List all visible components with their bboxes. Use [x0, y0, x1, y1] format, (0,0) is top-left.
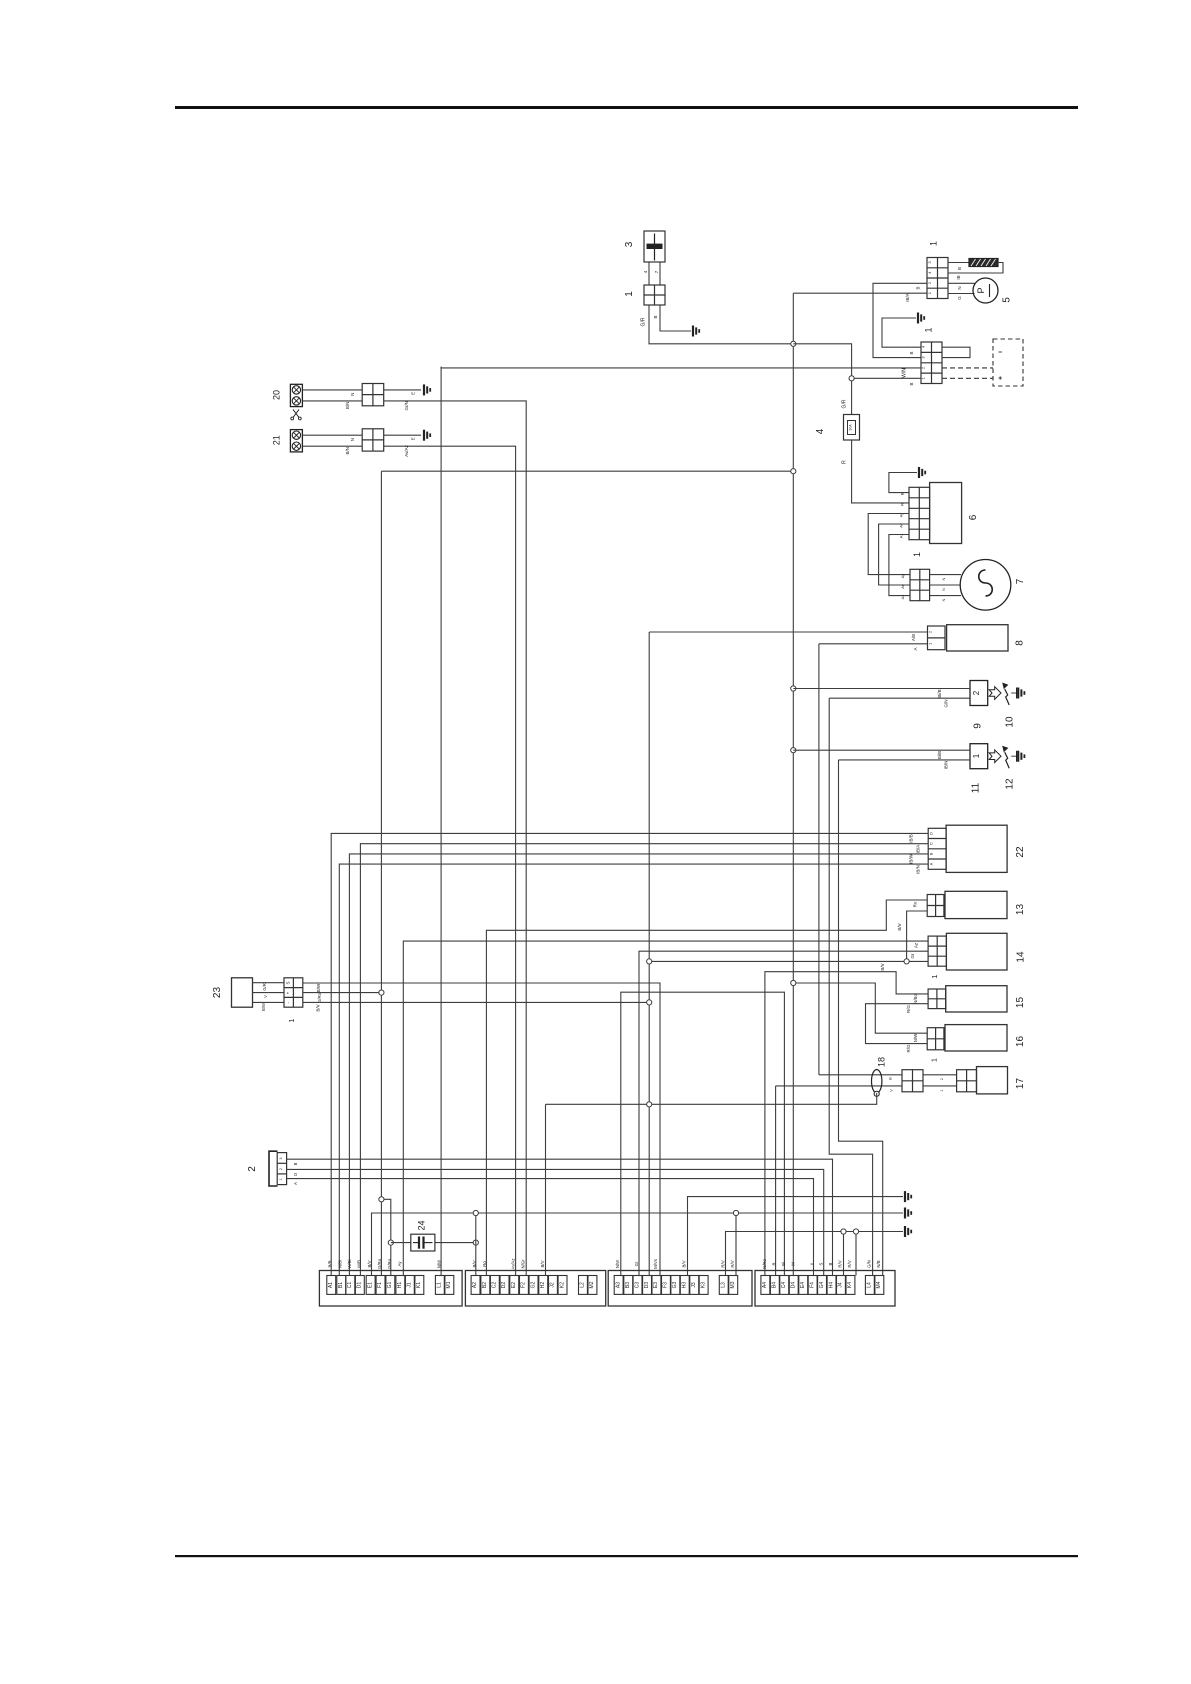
ground (component 3 circuit): [693, 326, 699, 337]
svg-text:1: 1: [279, 1178, 283, 1180]
connector of 22, 4 rows: [928, 828, 946, 869]
svg-text:V: V: [263, 995, 268, 998]
wire 14.r3 B/V: [649, 960, 928, 962]
component 14 body: [946, 933, 1007, 970]
svg-text:18: 18: [877, 1057, 887, 1067]
svg-text:Ro: Ro: [913, 901, 918, 907]
svg-text:B/V: B/V: [681, 1260, 686, 1267]
junction rail3 J4: [841, 1229, 846, 1234]
wire 11 lower from x=839: [839, 759, 971, 761]
svg-text:M1: M1: [446, 1281, 452, 1288]
ground (component 21): [424, 430, 430, 441]
ground (rail 2): [905, 1208, 911, 1219]
svg-text:N: N: [941, 598, 946, 601]
wire 22.r2 to D1: [360, 844, 928, 1276]
svg-text:R: R: [900, 503, 905, 506]
svg-text:13: 13: [1015, 904, 1026, 916]
svg-text:24: 24: [417, 1220, 427, 1230]
svg-text:B: B: [929, 852, 934, 855]
svg-text:B3: B3: [625, 1282, 631, 1288]
junction cap left: [388, 1240, 393, 1245]
svg-text:23: 23: [212, 987, 223, 999]
svg-text:G/R: G/R: [842, 399, 848, 408]
wire 23.r3 B/V to x=649 net: [303, 1001, 649, 1003]
svg-text:30A: 30A: [849, 424, 853, 431]
wire F1 net horizontal y=471: [381, 470, 793, 472]
connector strip group 1 cells: [327, 1276, 336, 1295]
ground (switch 12): [1018, 751, 1024, 762]
fuse 4 box: [844, 415, 860, 441]
component 8 body: [947, 625, 1008, 651]
svg-text:M3: M3: [730, 1281, 736, 1288]
svg-text:W/B: W/B: [356, 1260, 361, 1268]
connector 2x2 (21): [362, 429, 384, 451]
svg-text:K1: K1: [416, 1282, 422, 1288]
svg-text:G: G: [957, 296, 962, 300]
svg-text:B/N: B/N: [345, 447, 350, 455]
svg-text:Az: Az: [900, 595, 905, 600]
wire bus to 11: [793, 749, 970, 751]
svg-text:C1: C1: [347, 1282, 353, 1289]
svg-text:IB/W: IB/W: [909, 853, 914, 864]
component 21 2-pin connector: [290, 430, 302, 452]
wire 6.r4 to 7.r2: [879, 524, 910, 585]
junction x=649 y=1104: [647, 1102, 652, 1107]
svg-text:B/W: B/W: [261, 1003, 266, 1011]
svg-text:22: 22: [1015, 846, 1026, 858]
connector 2x2 (17 left): [902, 1070, 923, 1092]
wire 22.r1 to A1: [331, 833, 928, 1275]
svg-text:N/Bo: N/Bo: [913, 994, 918, 1005]
svg-text:Gr: Gr: [634, 1261, 639, 1266]
svg-text:N/Bi: N/Bi: [338, 1260, 343, 1268]
svg-text:14: 14: [1016, 951, 1027, 963]
wire connector5 row3 down to dashed connector: [873, 283, 927, 357]
svg-text:17: 17: [1015, 1078, 1026, 1090]
svg-text:3: 3: [279, 1157, 283, 1159]
svg-text:R/V: R/V: [847, 1260, 852, 1267]
svg-text:W/Bi: W/Bi: [347, 1259, 352, 1268]
junction bus at y=344: [791, 341, 796, 346]
svg-text:9: 9: [973, 723, 984, 729]
svg-text:1: 1: [289, 1018, 296, 1022]
svg-text:B/V: B/V: [367, 1260, 372, 1267]
svg-text:B/V: B/V: [540, 1260, 545, 1267]
svg-text:7: 7: [1015, 578, 1026, 584]
wire W/N long horizontal: [441, 367, 921, 368]
svg-text:M: M: [790, 1262, 795, 1266]
svg-text:R: R: [842, 460, 848, 464]
svg-text:H4: H4: [828, 1282, 834, 1289]
svg-text:E: E: [411, 437, 416, 440]
connector strip group 2 cells: [471, 1276, 480, 1295]
svg-text:IB/A: IB/A: [905, 293, 910, 302]
svg-text:11: 11: [971, 782, 982, 793]
svg-text:B2: B2: [482, 1282, 488, 1288]
svg-text:C3: C3: [634, 1282, 640, 1289]
junction rail2 cap net: [473, 1210, 478, 1215]
wire 15.r2 R/G Z-path: [866, 1004, 929, 1044]
component 3 box: [644, 231, 665, 262]
wires between 17 connectors: [923, 1074, 957, 1076]
connector of 5, 4-pin: [927, 258, 948, 299]
junction F1 net y=992: [379, 990, 384, 995]
svg-text:G/Ro: G/Ro: [317, 992, 322, 1003]
wire G/R from connector 1 to bus: [649, 305, 793, 344]
wire 21 top N: [302, 434, 362, 436]
svg-text:Bi/B: Bi/B: [937, 751, 942, 759]
wire 21 to ground: [384, 434, 421, 436]
wire 6.r5 to 7.r3: [889, 535, 910, 596]
connector 1 (below 3) 2x2: [644, 285, 665, 305]
ground (rail 1): [905, 1191, 911, 1202]
svg-text:R/G: R/G: [906, 1005, 911, 1014]
wire F1 net vertical x=381: [380, 471, 382, 1275]
wire 22.r3 to C1: [349, 854, 928, 1276]
svg-text:Av/Az: Av/Az: [404, 444, 409, 456]
dashed lead row4: [942, 377, 993, 379]
svg-text:6: 6: [968, 514, 979, 520]
svg-text:F4: F4: [809, 1282, 815, 1288]
svg-text:D: D: [929, 832, 934, 835]
capacitor 24 symbol: [413, 1242, 419, 1244]
svg-text:G3: G3: [672, 1281, 678, 1288]
svg-text:B/B: B/B: [328, 1260, 333, 1267]
connector of 23, 3 cells: [284, 978, 303, 1007]
svg-text:B: B: [909, 382, 914, 385]
component 11 switch box: [970, 744, 988, 769]
svg-text:12: 12: [1005, 778, 1016, 790]
wire 14.r2 to C3: [639, 951, 928, 1275]
ground (component 6): [919, 467, 925, 478]
svg-text:Gr: Gr: [910, 953, 915, 959]
svg-text:B/N: B/N: [345, 402, 350, 410]
wire bus to 9: [793, 688, 970, 690]
junction bus y=471: [791, 469, 796, 474]
svg-text:K3: K3: [700, 1282, 706, 1288]
ground (switch circuit): [918, 313, 924, 324]
svg-text:H2: H2: [540, 1282, 546, 1289]
svg-text:G/R: G/R: [641, 317, 647, 326]
wire 16.r1 to bus: [793, 983, 927, 1033]
wire bus top to connector of 5: [793, 292, 927, 294]
svg-text:B: B: [771, 1262, 776, 1265]
connector of 15: [928, 989, 946, 1009]
svg-text:2: 2: [972, 690, 981, 695]
svg-text:A: A: [913, 647, 918, 650]
svg-text:H3: H3: [682, 1282, 688, 1289]
svg-text:IB/A: IB/A: [916, 845, 921, 854]
connector 2x2 (20): [362, 384, 384, 406]
ground (rail 3): [905, 1226, 911, 1237]
svg-text:E3: E3: [653, 1282, 659, 1288]
svg-text:D1: D1: [357, 1282, 363, 1289]
svg-text:G/Ro: G/Ro: [387, 1258, 392, 1269]
svg-text:21: 21: [272, 435, 282, 445]
svg-text:A1: A1: [328, 1282, 334, 1288]
svg-text:4: 4: [815, 428, 826, 434]
dashed connector 4-pin: [921, 342, 942, 384]
gauge P (component 5): [973, 278, 998, 303]
connector strip group 3 cells: [614, 1276, 623, 1295]
svg-text:Ay: Ay: [397, 1261, 402, 1267]
wire 13.r1 to B2: [486, 900, 927, 1276]
wire x=829 vertical to L4: [829, 698, 872, 1275]
suppressor 18 ellipse: [872, 1070, 882, 1093]
wire 7.r3 to alternator: [930, 595, 961, 597]
wire K4 vertical: [855, 1232, 857, 1276]
junction bus y=750: [791, 748, 796, 753]
component 23 body: [232, 978, 253, 1007]
svg-text:N/W: N/W: [913, 1033, 918, 1043]
svg-text:A: A: [929, 862, 934, 865]
junction 14.r3 x=649: [647, 959, 652, 964]
svg-text:3: 3: [624, 241, 635, 247]
connector strip group 3 outer box: [608, 1271, 752, 1307]
svg-text:K2: K2: [559, 1282, 565, 1288]
svg-text:E2: E2: [511, 1282, 517, 1288]
svg-text:B4: B4: [772, 1282, 778, 1288]
svg-text:B: B: [653, 315, 658, 318]
connector strip group 2 outer box: [465, 1271, 605, 1307]
wire to heater element: [948, 262, 969, 264]
svg-text:R/V: R/V: [730, 1260, 735, 1267]
dashed lead row3: [942, 367, 993, 369]
svg-text:H1: H1: [397, 1282, 403, 1289]
component 9 switch box: [970, 681, 988, 706]
svg-text:L4: L4: [867, 1282, 873, 1288]
wire 20 top N: [302, 389, 362, 391]
bracket rows1-2 right of dashed connector: [942, 347, 970, 357]
wire 23.r1 B/W to E3: [303, 983, 660, 1276]
svg-text:1: 1: [924, 327, 934, 332]
wire 15.r1 to A4: [765, 972, 928, 1276]
svg-text:L1: L1: [437, 1282, 443, 1288]
svg-text:G/N: G/N: [866, 1260, 871, 1268]
svg-text:F1: F1: [377, 1282, 383, 1288]
svg-text:5: 5: [1002, 297, 1013, 303]
svg-text:F2: F2: [521, 1282, 527, 1288]
svg-text:G/R: G/R: [262, 983, 267, 990]
svg-text:B: B: [293, 1162, 298, 1165]
junction fuse node y=378: [849, 376, 854, 381]
svg-text:P: P: [976, 287, 986, 293]
svg-text:N/Gr: N/Gr: [521, 1259, 526, 1269]
svg-text:V: V: [889, 1089, 894, 1092]
svg-text:2: 2: [940, 1078, 944, 1080]
svg-text:IB/N: IB/N: [944, 761, 949, 770]
svg-text:N: N: [941, 588, 946, 591]
wire 8 pin1 from x=819 net: [819, 643, 928, 645]
wire 9 lower from x=829: [829, 697, 970, 699]
wire 20 bottom to strip: [302, 400, 362, 402]
wire fuse to connector of 6: [852, 440, 909, 503]
svg-text:G4: G4: [819, 1281, 825, 1288]
svg-text:20: 20: [272, 390, 282, 400]
wire 13.r2 to junction: [907, 911, 928, 961]
svg-text:15: 15: [1015, 997, 1026, 1009]
dashed box marks: [999, 351, 1003, 353]
ground wire 3 (L3 to ground): [726, 1232, 904, 1276]
wire 14.r1 to H1: [403, 941, 928, 1275]
svg-text:N/Ro: N/Ro: [762, 1258, 767, 1268]
svg-text:L3: L3: [721, 1282, 727, 1288]
component 13 body: [945, 891, 1007, 918]
svg-text:G2: G2: [530, 1281, 536, 1288]
svg-text:16: 16: [1015, 1036, 1026, 1048]
connector strip group 1 outer box: [319, 1271, 462, 1307]
svg-text:A/B: A/B: [911, 634, 916, 641]
wire 2.r3 to F4: [287, 1179, 814, 1276]
heater element (hatched): [969, 259, 998, 267]
svg-text:1: 1: [932, 974, 939, 978]
svg-text:B: B: [900, 492, 905, 495]
svg-text:B/V: B/V: [880, 963, 885, 970]
dashed box (key switch): [993, 339, 1023, 386]
component 6 body: [930, 483, 962, 544]
wire connector5 to gauge P row3: [948, 282, 975, 284]
svg-text:Av/Az: Av/Az: [511, 1258, 516, 1269]
svg-text:G1: G1: [387, 1281, 393, 1288]
svg-text:M4: M4: [876, 1281, 882, 1288]
svg-text:A: A: [293, 1182, 298, 1185]
wire x=839 vertical to M4: [839, 760, 883, 1276]
svg-text:Av: Av: [900, 584, 905, 589]
svg-text:1: 1: [929, 241, 939, 246]
junction rail2 M3: [733, 1210, 738, 1215]
wires 23 body to connector: [253, 982, 285, 984]
svg-text:IB/B: IB/B: [909, 834, 914, 843]
wire W/N vertical to L1: [440, 367, 442, 1276]
svg-text:D2: D2: [501, 1282, 507, 1289]
svg-text:B1: B1: [338, 1282, 344, 1288]
wire x=819 vertical: [818, 644, 820, 1075]
svg-text:D3: D3: [644, 1282, 650, 1289]
junction bus y=983: [791, 980, 796, 985]
connector of 16: [927, 1028, 944, 1050]
svg-text:2: 2: [279, 1168, 283, 1170]
wire ground to dashed connector row1: [882, 318, 921, 347]
svg-text:Bi/B: Bi/B: [937, 689, 942, 697]
svg-text:N: N: [957, 286, 962, 289]
svg-text:10: 10: [1005, 716, 1016, 728]
connector of 6, 5 rows: [909, 487, 930, 539]
pin wires 3 to connector: [648, 262, 650, 285]
svg-text:K4: K4: [847, 1282, 853, 1288]
connector of 14, 3 rows: [928, 936, 946, 966]
junction cap right: [473, 1240, 478, 1245]
svg-text:Az: Az: [914, 942, 919, 948]
svg-text:B: B: [828, 1262, 833, 1265]
svg-text:D: D: [293, 1173, 298, 1176]
svg-text:Ro: Ro: [482, 1261, 487, 1267]
wire J4 vertical: [843, 1232, 845, 1276]
svg-text:G/N: G/N: [944, 699, 949, 707]
component 16 body: [945, 1025, 1007, 1051]
svg-text:A2: A2: [472, 1282, 478, 1288]
wire F1-net branch to G1: [381, 1199, 390, 1275]
svg-text:Gr/N: Gr/N: [404, 401, 409, 411]
svg-text:N: N: [941, 577, 946, 580]
svg-text:R/V: R/V: [720, 1260, 725, 1267]
svg-text:2: 2: [247, 1166, 258, 1172]
svg-text:B/V: B/V: [316, 1004, 321, 1011]
connector strip group 4 cells: [761, 1276, 770, 1295]
svg-text:N/W: N/W: [436, 1259, 441, 1268]
svg-text:B: B: [888, 1077, 893, 1080]
junction rail3 K4: [853, 1229, 858, 1234]
svg-text:E1: E1: [367, 1282, 373, 1288]
connector of 8: [928, 626, 946, 650]
wire M3 vertical: [735, 1213, 737, 1276]
svg-text:1: 1: [932, 1058, 939, 1062]
svg-text:8: 8: [1015, 640, 1026, 646]
svg-text:A3: A3: [615, 1282, 621, 1288]
svg-text:N/B: N/B: [876, 1260, 881, 1267]
svg-text:IB: IB: [956, 275, 961, 279]
svg-text:1: 1: [972, 753, 981, 758]
wire cap right lead: [435, 1242, 476, 1244]
alternator circle (component 7): [960, 560, 1011, 611]
ground wire 2 (E1 to ground): [372, 1213, 904, 1276]
wire 2.r1 to H4: [287, 1159, 833, 1275]
wire 22.r4 to B1: [339, 864, 928, 1275]
wire 7.r1 to alternator: [930, 574, 961, 576]
bottom rule line: [175, 1555, 1078, 1557]
svg-text:B/W: B/W: [316, 983, 321, 992]
top rule line: [175, 106, 1078, 109]
junction F1 net y=1199: [379, 1197, 384, 1202]
svg-text:N/W: N/W: [615, 1259, 620, 1268]
svg-text:Bi: Bi: [781, 1262, 786, 1266]
svg-text:D4: D4: [791, 1282, 797, 1289]
fuse 4 element: [848, 421, 856, 435]
svg-text:A4: A4: [762, 1282, 768, 1288]
wire 21 bottom to strip: [302, 445, 362, 447]
wire ellipse tail to H2: [546, 1093, 877, 1104]
wire 6.r3 to 7.r1: [868, 514, 910, 575]
svg-text:E4: E4: [800, 1282, 806, 1288]
svg-text:G/Ro: G/Ro: [377, 1258, 382, 1269]
wire cap left lead: [391, 1242, 411, 1244]
svg-text:C2: C2: [492, 1282, 498, 1289]
svg-text:J4: J4: [838, 1282, 844, 1288]
wire connector 1 to ground: [660, 305, 691, 331]
svg-text:M2: M2: [589, 1281, 595, 1288]
wire 17 upper from x=819: [819, 1074, 902, 1076]
wire 8 pin2 from x=649 net: [649, 631, 927, 633]
svg-text:L2: L2: [580, 1282, 586, 1288]
ground wire 1 (to H3): [688, 1197, 904, 1276]
component 17 body: [977, 1067, 1008, 1094]
junction 14.r3 x=906: [904, 959, 909, 964]
svg-text:F3: F3: [663, 1282, 669, 1288]
svg-text:R/G: R/G: [906, 1044, 911, 1053]
svg-text:IB/N: IB/N: [916, 865, 921, 874]
ground (component 20): [424, 384, 430, 395]
svg-text:1: 1: [940, 1089, 944, 1091]
component 15 body: [946, 986, 1007, 1012]
svg-text:Ay: Ay: [900, 574, 905, 579]
wire bus to fuse 4: [793, 344, 851, 415]
svg-text:R/V: R/V: [838, 1260, 843, 1267]
connector strip group 4 outer box: [755, 1271, 895, 1307]
svg-text:1: 1: [912, 552, 922, 557]
wire connector5 to gauge P row4: [948, 293, 975, 295]
svg-text:J2: J2: [550, 1282, 556, 1288]
wire A2 vertical: [475, 1213, 477, 1276]
junction x=649 y=1002: [647, 1000, 652, 1005]
